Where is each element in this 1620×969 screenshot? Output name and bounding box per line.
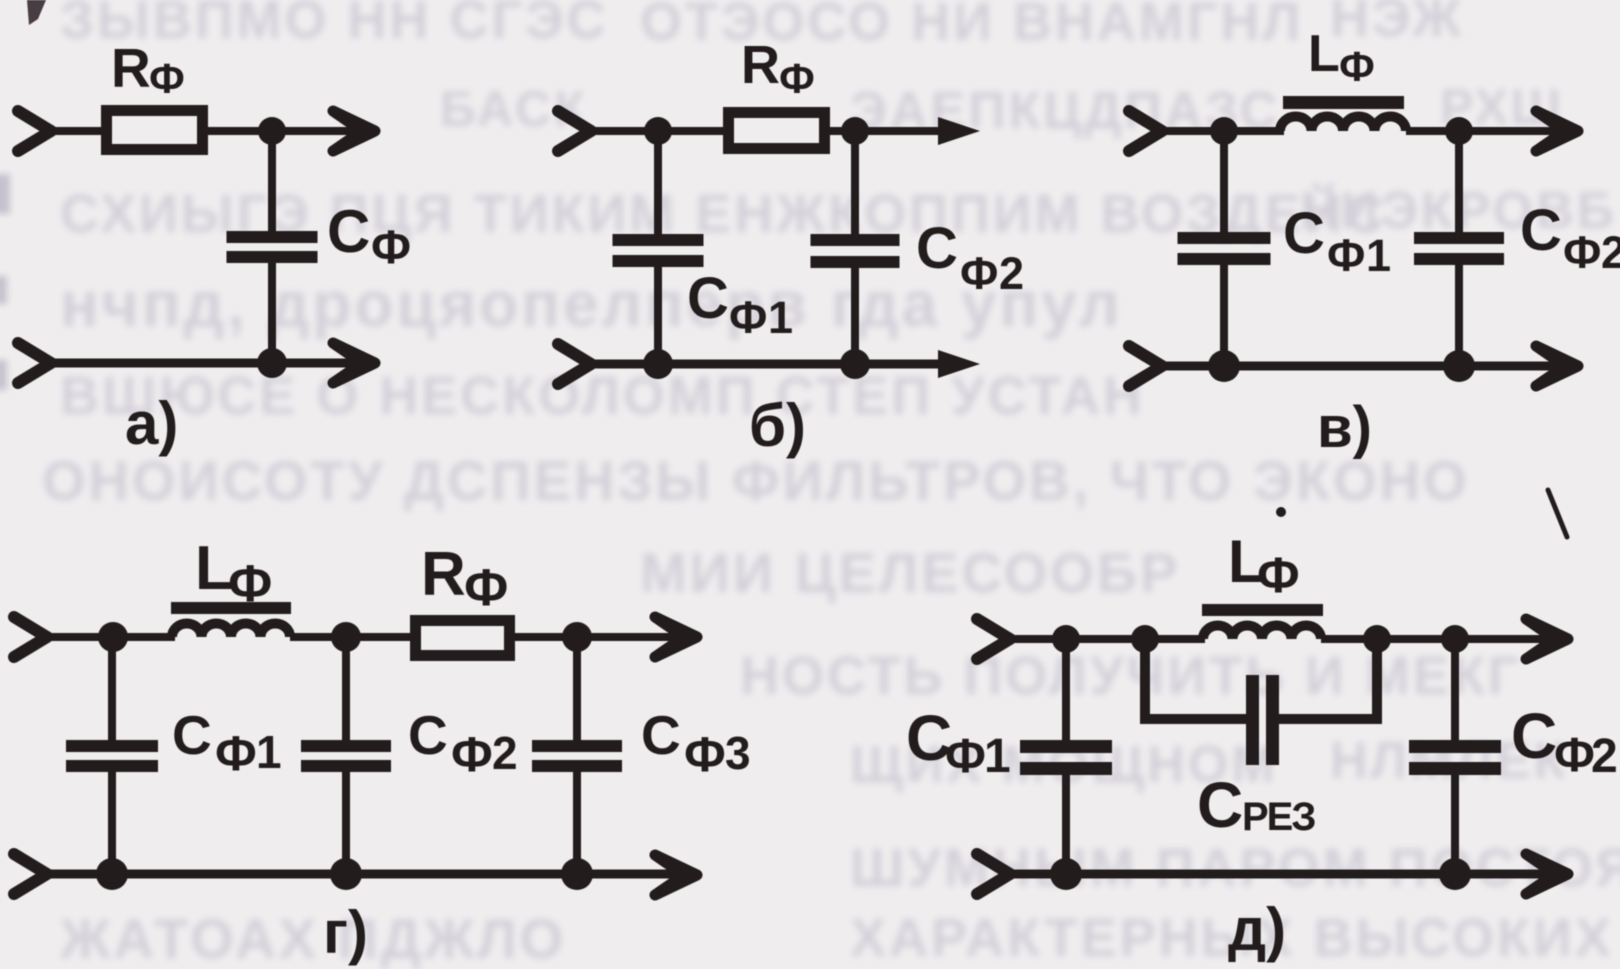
scan speck above circuit d xyxy=(1276,507,1286,517)
svg-text:3: 3 xyxy=(725,727,751,779)
svg-text:2: 2 xyxy=(1601,227,1620,278)
input arrow (bottom-left, circuit g) xyxy=(14,854,47,894)
label Rф (g) xyxy=(421,540,508,617)
node — top-left junction (v) xyxy=(1210,117,1238,145)
svg-text:C: C xyxy=(916,216,958,281)
wire — resistor to output (g) xyxy=(513,633,680,641)
svg-text:Ф: Ф xyxy=(451,728,493,782)
node — top junction 2 (g) xyxy=(331,622,361,652)
svg-text:L: L xyxy=(1308,25,1340,83)
svg-text:1: 1 xyxy=(768,292,793,343)
svg-text:C: C xyxy=(1511,700,1557,772)
node — Cф1 top junction (d) xyxy=(1052,625,1080,653)
capacitor Cф1 (v) xyxy=(1178,131,1271,366)
svg-text:МИИ ЦЕЛЕСООБР: МИИ ЦЕЛЕСООБР xyxy=(640,541,1180,604)
input arrow (top-left, circuit b) xyxy=(558,111,591,151)
label g) xyxy=(323,899,368,966)
label Cф1 (v) xyxy=(1283,201,1391,281)
node — top-right junction (v) xyxy=(1445,117,1473,145)
output arrow (bottom-right, circuit v) xyxy=(1536,346,1578,386)
resistor Rф (b) xyxy=(729,113,825,149)
svg-text:Ф: Ф xyxy=(1257,547,1300,603)
label Cф1 (g) xyxy=(172,704,282,781)
label Lф (d) xyxy=(1228,528,1300,603)
capacitor Cф1 (g) xyxy=(66,637,158,874)
resistor Rф (g) xyxy=(416,621,510,656)
capacitor Cрез (d) — vertical plates xyxy=(1246,675,1279,765)
label Cрез (d) xyxy=(1197,769,1315,841)
node — bottom junction 1 (g) xyxy=(96,858,128,890)
capacitor Cф2 (g) xyxy=(301,637,391,874)
svg-text:1: 1 xyxy=(256,726,282,778)
capacitor Cф1 (d) xyxy=(1020,639,1112,874)
node — top junction 1 (g) xyxy=(98,622,128,652)
svg-text:2: 2 xyxy=(999,248,1024,299)
inductor Lф (d) — core bar xyxy=(1202,604,1323,616)
label d) xyxy=(1228,896,1286,963)
inductor Lф (g) — winding xyxy=(172,624,290,638)
wire — bottom rail (b) xyxy=(588,360,944,369)
label v) xyxy=(1317,395,1372,460)
svg-text:Ф: Ф xyxy=(371,220,411,273)
svg-text:Ф: Ф xyxy=(1339,43,1375,90)
node — bottom junction 2 (g) xyxy=(330,858,362,890)
wire — bottom rail (g) xyxy=(44,870,680,879)
label Lф (v) xyxy=(1308,25,1375,90)
inductor Lф (d) — winding xyxy=(1203,626,1321,640)
label Cф2 (b) xyxy=(916,216,1024,299)
svg-text:C: C xyxy=(641,704,681,766)
output arrow (top-right, circuit g) xyxy=(655,617,697,657)
svg-text:Ф: Ф xyxy=(729,292,767,343)
wire — input to inductor (v) xyxy=(1159,127,1284,135)
wire — inductor to resistor (g) xyxy=(290,633,412,641)
svg-text:C: C xyxy=(687,266,729,331)
label Cф3 (g) xyxy=(641,704,751,782)
svg-text:Ф: Ф xyxy=(1327,230,1365,281)
svg-text:Ф: Ф xyxy=(960,248,998,299)
circuit d) — LC filter with resonant capacitor xyxy=(906,528,1618,963)
svg-text:C: C xyxy=(408,704,448,766)
svg-text:ВШЮСЕ О НЕСКОЛОМП СТЕП УСТАН: ВШЮСЕ О НЕСКОЛОМП СТЕП УСТАН xyxy=(60,366,1145,426)
svg-text:а): а) xyxy=(125,390,178,457)
svg-text:R: R xyxy=(421,540,466,609)
wire — inductor to output (d) xyxy=(1321,635,1551,643)
scan slash at top-right of circuit d region xyxy=(1548,490,1567,537)
svg-text:C: C xyxy=(172,704,212,766)
wire — bottom rail (a) xyxy=(48,359,357,368)
node — bottom junction 3 (g) xyxy=(561,858,593,890)
label Cф2 (g) xyxy=(408,704,518,782)
input arrow (bottom-left, circuit v) xyxy=(1129,346,1162,386)
capacitor Cф2 (d) xyxy=(1409,639,1501,874)
svg-text:R: R xyxy=(111,37,151,99)
wire — input to inductor (g) xyxy=(44,633,175,641)
output arrow (top-right, circuit b) xyxy=(938,117,980,145)
svg-text:Ф: Ф xyxy=(684,728,726,782)
svg-text:б): б) xyxy=(749,392,806,459)
svg-text:НОСТЬ ПОЛУЧИТЬ И МЕКГ: НОСТЬ ПОЛУЧИТЬ И МЕКГ xyxy=(740,646,1521,706)
input arrow (top-left, circuit v) xyxy=(1129,111,1162,151)
output arrow (bottom-right, circuit g) xyxy=(655,855,697,895)
svg-text:ОТЭОСО НИ ВНАМГНЛ: ОТЭОСО НИ ВНАМГНЛ xyxy=(640,0,1303,52)
node — bottom junction (a) xyxy=(257,348,287,378)
node — top-left junction (b) xyxy=(644,117,672,145)
label Cф (a) xyxy=(327,198,411,273)
node — top junction (a) xyxy=(258,117,286,145)
circuit v) — C-L-C pi filter cell xyxy=(1129,25,1620,460)
svg-text:2: 2 xyxy=(1591,730,1618,783)
svg-text:в): в) xyxy=(1317,395,1372,460)
svg-text:д): д) xyxy=(1228,896,1286,963)
output arrow (top-right, circuit v) xyxy=(1536,111,1578,151)
capacitor Cф2 (v) xyxy=(1414,131,1504,366)
node — bottom-right junction (b) xyxy=(840,349,870,379)
svg-text:2: 2 xyxy=(492,727,518,779)
inductor Lф (v) — winding xyxy=(1280,117,1406,132)
input arrow (bottom-left, circuit a) xyxy=(18,343,51,383)
node — top-right junction (b) xyxy=(841,117,869,145)
node — bottom-right junction (d) xyxy=(1439,858,1471,890)
wire — bottom rail (d) xyxy=(1007,870,1551,879)
svg-text:РЕЗ: РЕЗ xyxy=(1242,795,1315,839)
svg-text:C: C xyxy=(327,198,370,265)
output arrow (bottom-right, circuit b) xyxy=(938,350,980,378)
svg-text:Ф: Ф xyxy=(149,55,185,102)
svg-text:C: C xyxy=(1197,769,1243,841)
svg-text:C: C xyxy=(1520,198,1562,263)
label a) xyxy=(125,390,178,457)
svg-text:Ф: Ф xyxy=(215,727,257,781)
output arrow (bottom-right, circuit d) xyxy=(1526,854,1568,894)
label Lф (g) xyxy=(195,534,272,613)
svg-text:1: 1 xyxy=(984,730,1011,783)
svg-text:Ф: Ф xyxy=(1563,227,1601,278)
label Rф (b) xyxy=(741,35,815,102)
wire — inductor to output (v) xyxy=(1406,127,1560,135)
svg-text:R: R xyxy=(741,35,780,95)
node — top junction 3 (g) xyxy=(562,622,592,652)
svg-text:Ф: Ф xyxy=(1554,729,1595,782)
wire — resistor to output (a) xyxy=(208,127,357,135)
svg-text:C: C xyxy=(1283,201,1325,266)
output arrow (top-right, circuit d) xyxy=(1526,619,1568,659)
wire — resonant branch right leg (d) xyxy=(1277,639,1377,719)
input arrow (top-left, circuit d) xyxy=(977,619,1010,659)
svg-text:НЭЖ: НЭЖ xyxy=(1330,0,1464,48)
scan mark at top-left corner xyxy=(27,0,46,25)
wire — input to inductor (d) xyxy=(1007,635,1205,643)
capacitor Cф (a) xyxy=(227,131,318,363)
input arrow (bottom-left, circuit d) xyxy=(977,854,1010,894)
svg-text:Ф: Ф xyxy=(779,55,815,102)
svg-text:Ф: Ф xyxy=(945,730,986,783)
circuit b) — C-R-C pi filter cell xyxy=(558,35,1024,459)
label Cф1 (d) xyxy=(906,702,1011,783)
label b) xyxy=(749,392,806,459)
node — bottom-left junction (b) xyxy=(643,349,673,379)
svg-text:1: 1 xyxy=(1366,230,1391,281)
capacitor Cф3 (g) xyxy=(532,637,622,874)
circuit g) — C-L-C-R-C multi-section filter xyxy=(14,534,751,966)
inductor Lф (v) — core bar xyxy=(1283,96,1404,109)
svg-text:ШУМНЫМ ПАРОМ ПОСТОЯ: ШУМНЫМ ПАРОМ ПОСТОЯ xyxy=(850,838,1620,898)
label Rф (a) xyxy=(111,37,185,102)
label Cф2 (d) xyxy=(1511,700,1618,783)
resistor Rф (a) xyxy=(107,111,203,150)
wire — resonant branch left leg (d) xyxy=(1145,639,1248,719)
capacitor Cф2 (b) xyxy=(811,131,900,364)
output arrow (top-right, circuit a) xyxy=(333,111,375,151)
node — bottom-left junction (d) xyxy=(1050,858,1082,890)
inductor Lф (g) — core bar xyxy=(171,602,291,614)
svg-text:Ф: Ф xyxy=(464,559,508,617)
input arrow (top-left, circuit a) xyxy=(18,111,51,151)
wire — resistor to output (b) xyxy=(828,127,944,135)
input arrow (bottom-left, circuit b) xyxy=(558,344,591,384)
wire — input to resistor (a) xyxy=(48,127,103,135)
circuit a) — RC low-pass filter cell xyxy=(18,37,411,457)
node — Cф2 top junction (d) xyxy=(1441,625,1469,653)
svg-text:ЖАТОАХ ПДЖЛО: ЖАТОАХ ПДЖЛО xyxy=(59,907,566,969)
node — resonant branch left junction (d) xyxy=(1131,625,1159,653)
wire — bottom rail (v) xyxy=(1159,362,1560,371)
label Cф1 (b) xyxy=(687,266,793,343)
wire — input to resistor (b) xyxy=(588,127,725,135)
output arrow (bottom-right, circuit a) xyxy=(333,343,375,383)
input arrow (top-left, circuit g) xyxy=(14,617,47,657)
label Cф2 (v) xyxy=(1520,198,1620,278)
svg-text:Ф: Ф xyxy=(228,555,272,613)
node — bottom-right junction (v) xyxy=(1443,350,1475,382)
svg-text:г): г) xyxy=(323,899,368,966)
capacitor Cф1 (b) xyxy=(613,131,704,364)
node — bottom-left junction (v) xyxy=(1208,350,1240,382)
node — resonant branch right junction (d) xyxy=(1363,625,1391,653)
